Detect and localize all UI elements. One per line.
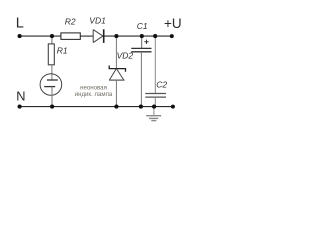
svg-text:VD2: VD2 [117, 50, 134, 60]
svg-text:R2: R2 [65, 17, 76, 27]
svg-text:+U: +U [164, 16, 182, 31]
svg-text:C1: C1 [137, 21, 148, 31]
svg-text:L: L [16, 16, 24, 32]
svg-text:VD1: VD1 [89, 15, 106, 25]
svg-text:R1: R1 [57, 45, 68, 55]
svg-text:C2: C2 [156, 80, 167, 90]
svg-text:N: N [16, 89, 25, 104]
svg-text:индик. лампа: индик. лампа [75, 91, 113, 98]
